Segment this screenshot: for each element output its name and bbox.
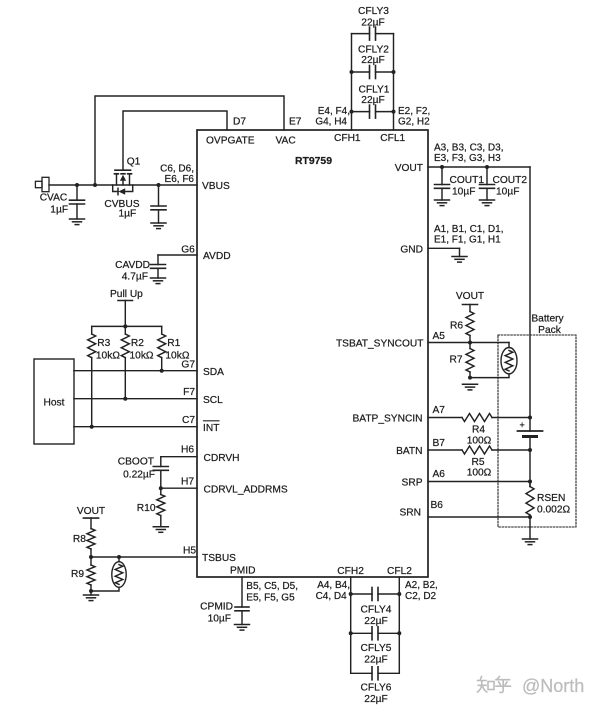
wire VOUT [428,166,530,168]
svg-text:Pull Up: Pull Up [110,289,143,300]
capacitor CFLY5 [351,632,372,634]
watermark zhihu @North [478,677,511,693]
capacitor CFLY6 [351,672,372,674]
svg-text:SRN: SRN [399,508,421,519]
svg-text:R4: R4 [472,425,485,436]
ground CPMID [235,624,250,626]
svg-text:H7: H7 [181,476,194,487]
svg-text:BATN: BATN [396,446,422,457]
svg-text:R6: R6 [450,320,463,331]
resistor R10 [160,488,162,494]
svg-text:CAVDD: CAVDD [115,260,150,271]
svg-text:G6: G6 [181,244,195,255]
node CFLY1 right [392,110,396,114]
svg-text:B6: B6 [431,500,444,511]
resistor RSEN [529,482,531,487]
node R9 thermistor junction [89,589,93,593]
svg-text:10µF: 10µF [452,187,475,198]
battery BT1 [518,430,543,432]
ground R10 [153,526,168,528]
node R7 thermistor junction [468,376,472,380]
node VAC rail junction [93,183,97,187]
resistor R1 [161,326,163,334]
svg-text:22µF: 22µF [364,694,387,705]
capacitor CVAC [76,185,78,200]
svg-text:CFLY6: CFLY6 [361,683,392,694]
node BATP junction [528,416,532,420]
wire CDRVH [161,456,197,458]
svg-text:BATP_SYNCIN: BATP_SYNCIN [352,414,422,425]
capacitor CFLY2 [352,71,370,73]
svg-text:VOUT: VOUT [77,506,105,517]
node TSBUS thermistor junction [117,555,121,559]
svg-text:E7: E7 [289,117,302,128]
svg-text:CVAC: CVAC [40,193,68,204]
resistor R4 [462,414,492,422]
svg-text:VOUT: VOUT [456,291,484,302]
svg-text:R7: R7 [449,355,462,366]
svg-text:A4, B4,: A4, B4, [317,580,350,591]
node CFLY5 right [397,631,401,635]
svg-text:H5: H5 [183,545,196,556]
svg-text:+: + [520,420,525,430]
svg-text:E5, F5, G5: E5, F5, G5 [246,593,295,604]
svg-text:E6, F6: E6, F6 [165,174,195,185]
thermistor RT1 [118,557,120,562]
svg-text:G4, H4: G4, H4 [315,117,347,128]
svg-text:G7: G7 [181,360,195,371]
wire CDRVL_ADDRMS [161,487,197,489]
node COUT1 [440,165,444,169]
svg-text:Q1: Q1 [127,157,141,168]
svg-text:C4, D4: C4, D4 [316,591,348,602]
ground battery [523,538,538,540]
resistor R8 [90,518,92,529]
svg-text:100Ω: 100Ω [467,436,492,447]
node CDRVL junction [159,486,163,490]
wire INT [74,426,197,428]
node SRP junction [528,480,532,484]
svg-text:CFLY4: CFLY4 [361,605,392,616]
capacitor CBOOT [160,457,162,467]
svg-text:CDRVH: CDRVH [204,453,240,464]
svg-text:SDA: SDA [203,367,224,378]
svg-text:10µF: 10µF [208,614,231,625]
svg-text:4.7µF: 4.7µF [122,272,148,283]
svg-text:0.22µF: 0.22µF [123,470,155,481]
svg-text:RSEN: RSEN [537,493,565,504]
svg-text:A6: A6 [433,469,446,480]
svg-text:22µF: 22µF [364,655,387,666]
capacitor CAVDD [151,264,166,266]
node CFLY5 left [349,631,353,635]
resistor R9 [90,557,92,565]
svg-text:R10: R10 [137,503,156,514]
svg-text:CFLY2: CFLY2 [358,45,389,56]
thermistor RT2 [501,348,517,374]
svg-text:@North: @North [522,676,584,696]
svg-text:E2, F2,: E2, F2, [398,106,430,117]
svg-text:SRP: SRP [402,478,423,489]
svg-text:CFH2: CFH2 [337,566,364,577]
svg-text:SCL: SCL [203,395,223,406]
svg-text:COUT2: COUT2 [493,175,528,186]
svg-text:INT: INT [203,423,219,434]
resistor R2 [124,326,126,334]
ground CVAC [70,218,85,220]
node CVBUS junction [157,183,161,187]
svg-text:10µF: 10µF [496,187,519,198]
svg-text:E1, F1, G1, H1: E1, F1, G1, H1 [434,235,501,246]
resistor R7 [466,349,474,373]
svg-text:R1: R1 [167,338,180,349]
svg-text:PMID: PMID [230,566,255,577]
svg-text:100Ω: 100Ω [467,468,492,479]
svg-text:TSBAT_SYNCOUT: TSBAT_SYNCOUT [336,339,424,350]
svg-text:22µF: 22µF [361,95,384,106]
op-amp U1 RT9759 IC body [197,130,428,577]
svg-text:H6: H6 [181,444,194,455]
svg-text:F7: F7 [183,387,195,398]
ground R9 [84,594,99,596]
resistor R3 [91,326,93,334]
wire OVPGATE rail to D7 [123,111,227,170]
svg-text:AVDD: AVDD [203,251,231,262]
svg-text:A7: A7 [433,405,446,416]
svg-text:0.002Ω: 0.002Ω [537,505,570,516]
wire SCL [74,398,197,400]
svg-text:R2: R2 [131,338,144,349]
wire SRN [428,516,530,518]
svg-text:RT9759: RT9759 [295,156,332,167]
svg-text:22µF: 22µF [361,18,384,29]
wire CFH2 rail [350,577,352,673]
svg-text:TSBUS: TSBUS [202,553,236,564]
connector J1 input plug [35,181,42,187]
capacitor CVBUS [158,185,160,206]
ground CVBUS [151,222,166,224]
svg-text:E3, F3, G3, H3: E3, F3, G3, H3 [434,153,501,164]
capacitor CFLY3 [352,33,370,35]
node CFLY1 left [350,110,354,114]
wire pullup stem [124,301,126,327]
wire CFL2 rail [398,577,400,673]
wire battery rail top [529,167,531,431]
capacitor CFLY4 [351,593,372,595]
svg-text:Pack: Pack [538,325,562,336]
svg-text:GND: GND [400,245,423,256]
wire VBUS main [49,184,197,186]
block Host [34,359,74,444]
svg-text:R8: R8 [73,534,86,545]
node CFLY4 right [397,592,401,596]
svg-text:CFL1: CFL1 [380,133,405,144]
node SDA R1 junction [160,369,164,373]
svg-text:E4, F4,: E4, F4, [318,106,350,117]
wire AVDD [158,254,197,256]
node INT R3 junction [90,425,94,429]
svg-text:D7: D7 [233,117,246,128]
svg-text:10kΩ: 10kΩ [96,351,120,362]
svg-text:Battery: Battery [531,314,564,325]
svg-text:C2, D2: C2, D2 [405,591,437,602]
node TSBUS R8 junction [89,555,93,559]
wire pullup bus [92,325,162,327]
node CFLY2 right [392,70,396,74]
svg-text:R5: R5 [471,457,484,468]
node CFLY4 left [349,592,353,596]
svg-text:A1, B1, C1, D1,: A1, B1, C1, D1, [434,224,503,235]
wire GND pin [428,247,460,249]
ground COUT2 [480,199,495,201]
svg-text:CDRVL_ADDRMS: CDRVL_ADDRMS [204,484,288,495]
wire SRP [428,481,530,483]
node COUT2 [485,165,489,169]
svg-text:A5: A5 [433,331,446,342]
svg-text:CFH1: CFH1 [334,133,361,144]
svg-text:22µF: 22µF [361,55,384,66]
node pullup bus junction [123,324,127,328]
wire BATN [428,449,462,451]
capacitor CPMID [241,577,243,607]
svg-text:B7: B7 [433,438,446,449]
wire TSBAT_SYNCOUT [428,342,509,344]
wire CFL1 rail [393,34,395,130]
svg-text:R3: R3 [97,338,110,349]
ground GND pin [452,256,467,258]
svg-text:Host: Host [44,398,65,409]
svg-text:CFLY3: CFLY3 [358,6,389,17]
node CFLY2 left [350,70,354,74]
capacitor CFLY1 [352,111,370,113]
node BATN junction [528,448,532,452]
svg-text:CFLY5: CFLY5 [361,643,392,654]
svg-text:VOUT: VOUT [395,163,423,174]
svg-text:C7: C7 [182,415,195,426]
wire TSBUS [91,556,197,558]
transistor Q1 PMOS [115,169,131,171]
svg-text:A3, B3, C3, D3,: A3, B3, C3, D3, [434,142,503,153]
ground CAVDD [151,277,166,279]
svg-text:VAC: VAC [276,136,296,147]
svg-text:1µF: 1µF [50,205,68,216]
svg-text:VBUS: VBUS [202,181,230,192]
wire VAC rail to E7 [95,96,284,185]
svg-text:CBOOT: CBOOT [118,457,154,468]
capacitor COUT2 [486,167,488,185]
svg-text:10kΩ: 10kΩ [130,351,154,362]
svg-text:G2, H2: G2, H2 [398,117,430,128]
svg-text:C6, D6,: C6, D6, [160,164,194,175]
svg-text:B5, C5, D5,: B5, C5, D5, [246,581,298,592]
svg-text:OVPGATE: OVPGATE [206,136,255,147]
svg-text:A2, B2,: A2, B2, [405,580,438,591]
svg-text:CPMID: CPMID [200,602,233,613]
node SCL R2 junction [123,397,127,401]
wire SDA [74,370,197,372]
svg-text:CFL2: CFL2 [387,566,412,577]
svg-text:R9: R9 [71,569,84,580]
battery pack dashed box [498,335,576,527]
wire battery rail mid [529,437,531,487]
node CVAC junction [75,183,79,187]
node SRN junction [528,515,532,519]
resistor R6 [469,305,471,312]
node TSBAT R6 junction [468,341,472,345]
wire CFH1 rail [351,34,353,130]
ground R7 [463,383,478,385]
capacitor COUT1 [441,167,443,185]
resistor R5 [462,446,492,454]
svg-text:1µF: 1µF [119,209,137,220]
wire BATP_SYNCIN [428,417,462,419]
wire SRN to ground [529,517,531,539]
svg-text:CFLY1: CFLY1 [359,85,390,96]
svg-text:22µF: 22µF [364,616,387,627]
ground COUT1 [435,199,450,201]
